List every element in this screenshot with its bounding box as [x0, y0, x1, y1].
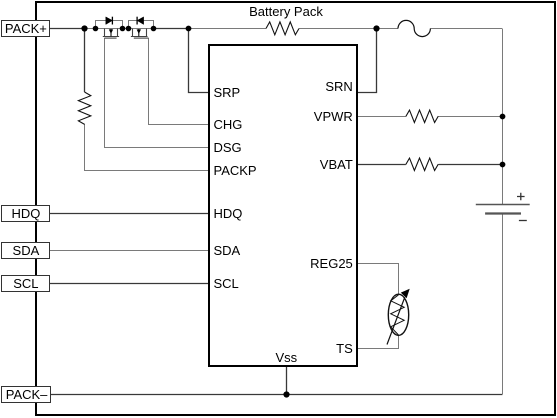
svg-text:PACK+: PACK+: [5, 21, 47, 36]
svg-text:VBAT: VBAT: [320, 157, 353, 172]
svg-text:CHG: CHG: [214, 117, 243, 132]
svg-text:SCL: SCL: [13, 276, 38, 291]
svg-text:Vss: Vss: [275, 350, 297, 365]
svg-text:Battery Pack: Battery Pack: [249, 4, 323, 19]
svg-text:SDA: SDA: [13, 243, 40, 258]
svg-text:PACKP: PACKP: [214, 163, 257, 178]
svg-text:TS: TS: [336, 341, 353, 356]
svg-text:SDA: SDA: [214, 243, 241, 258]
svg-text:SRN: SRN: [325, 79, 352, 94]
svg-text:VPWR: VPWR: [314, 109, 353, 124]
svg-text:REG25: REG25: [310, 256, 353, 271]
svg-text:HDQ: HDQ: [11, 206, 40, 221]
svg-text:PACK–: PACK–: [6, 387, 48, 402]
svg-text:SRP: SRP: [214, 85, 241, 100]
svg-text:HDQ: HDQ: [214, 206, 243, 221]
svg-text:DSG: DSG: [214, 140, 242, 155]
svg-text:SCL: SCL: [214, 276, 239, 291]
